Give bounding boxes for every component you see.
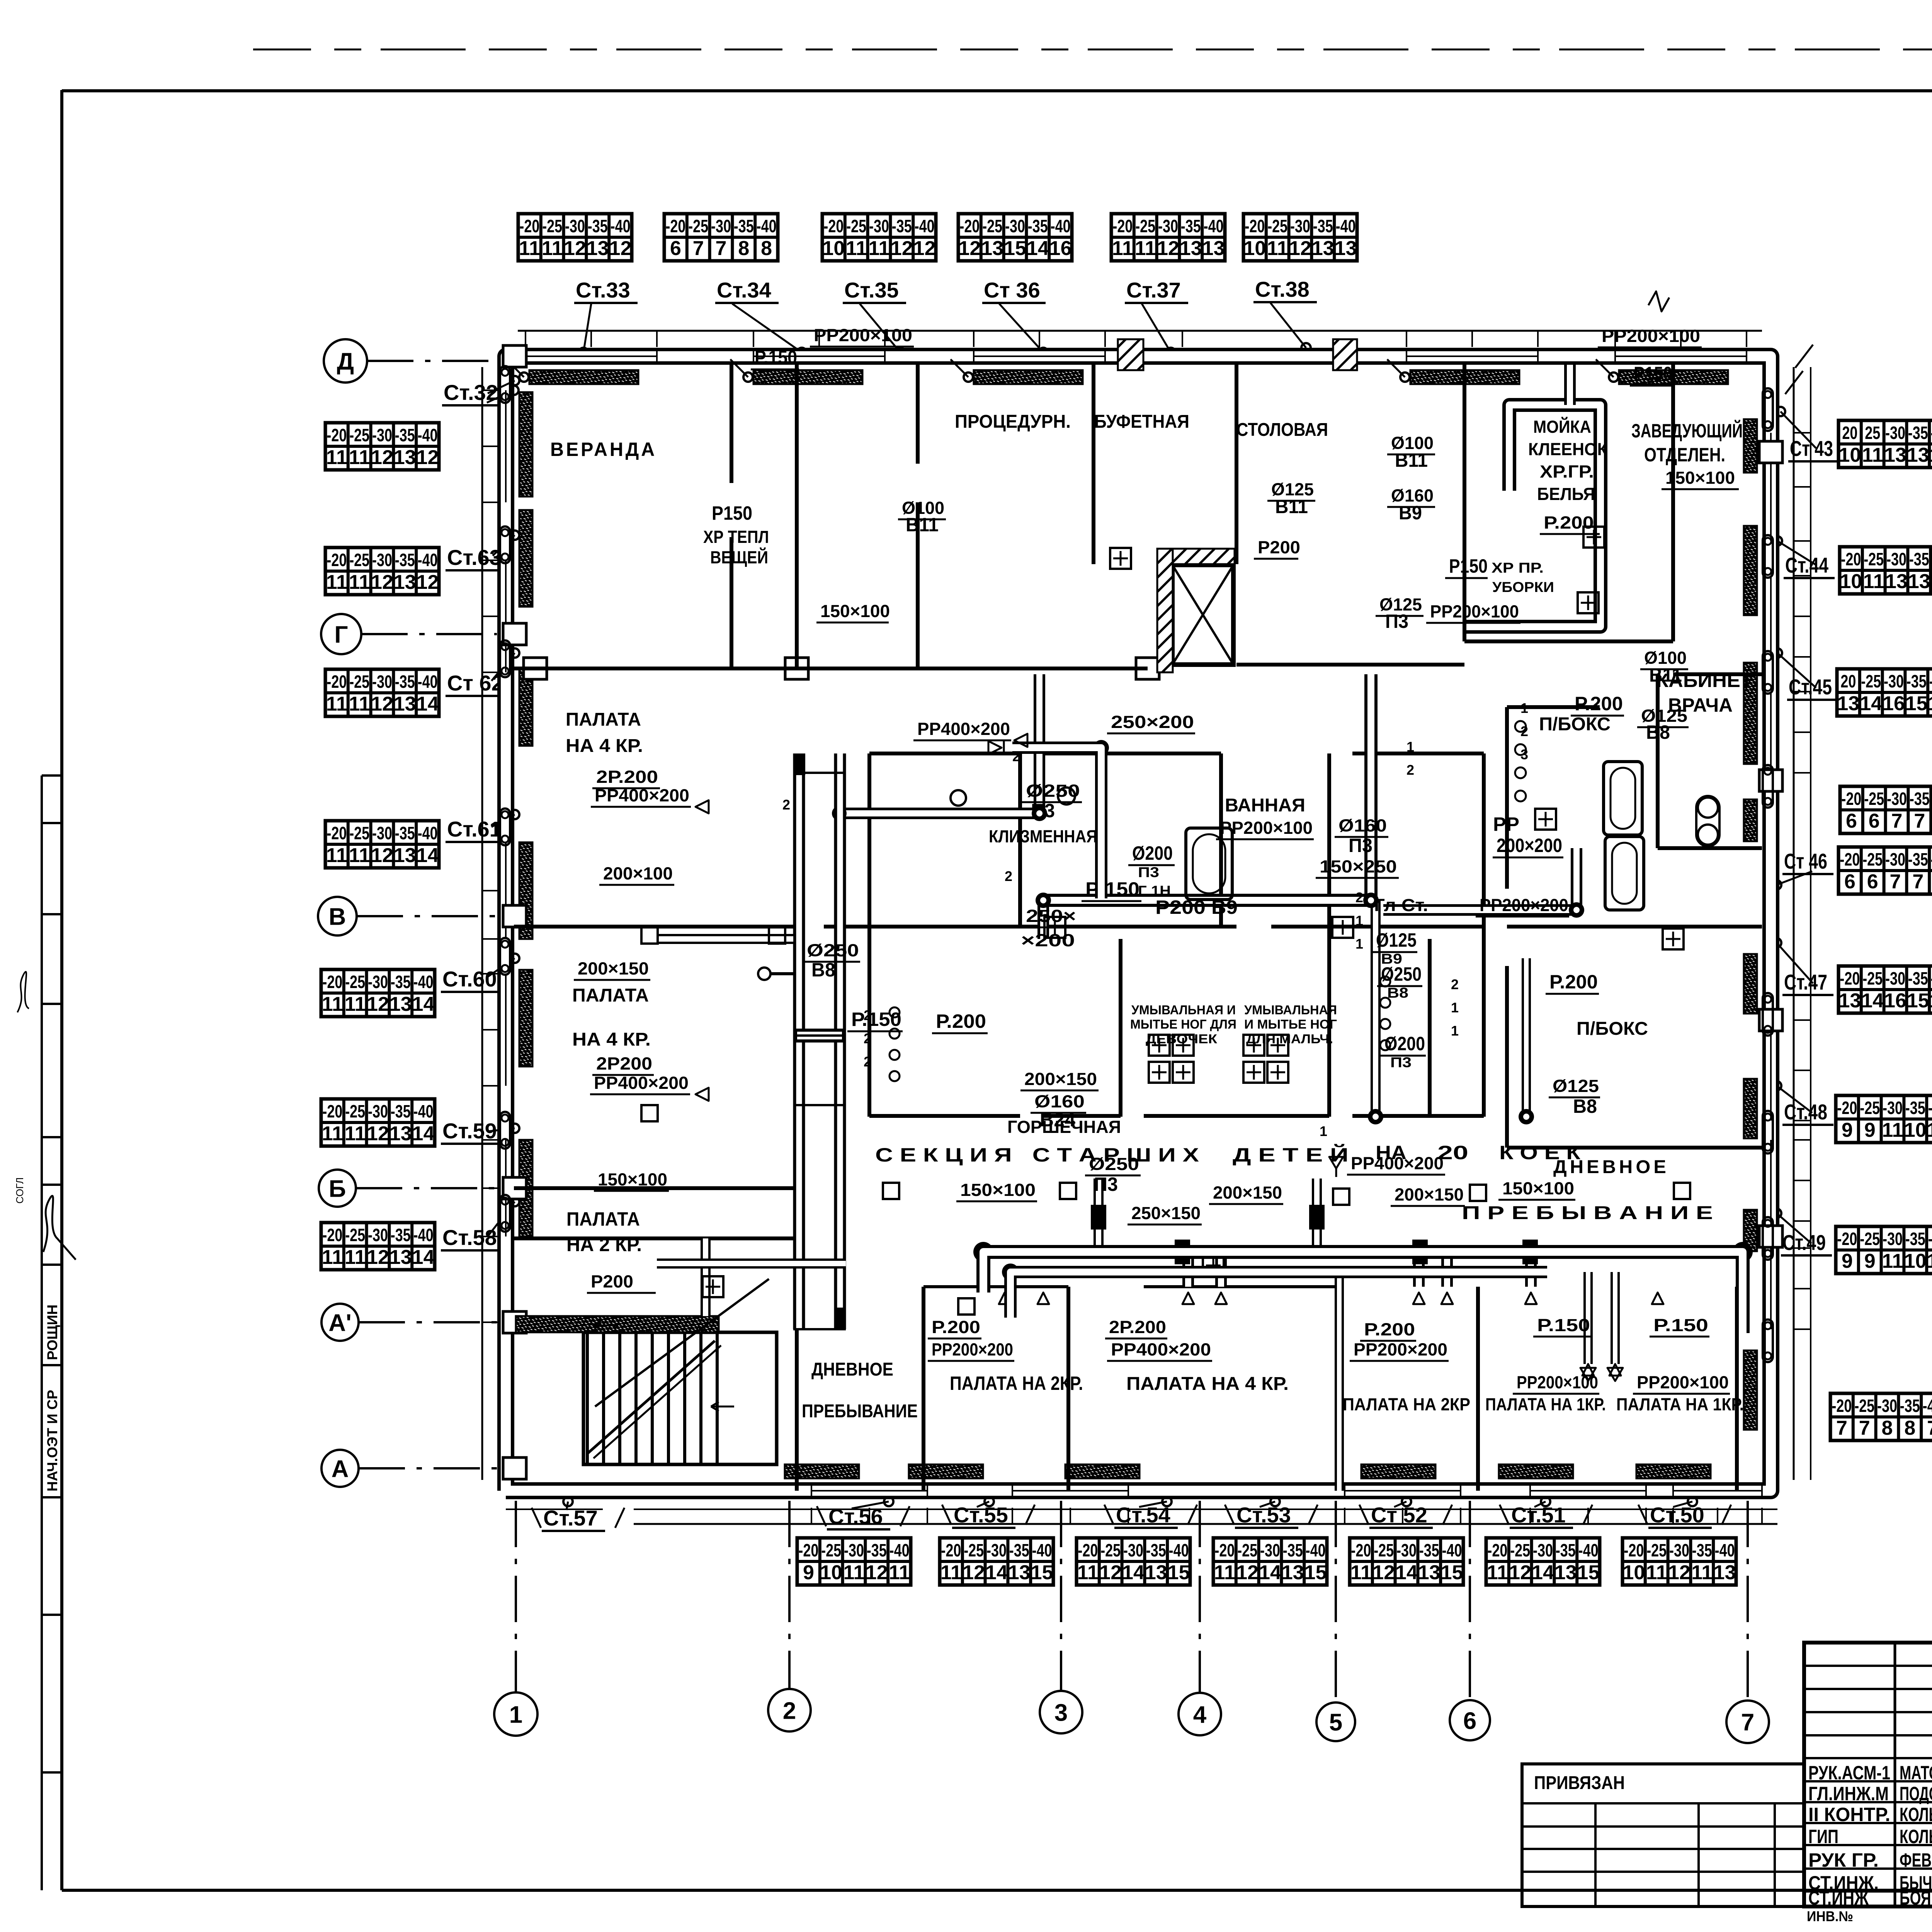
- svg-text:ПАЛАТА НА 4 КР.: ПАЛАТА НА 4 КР.: [1126, 1374, 1289, 1394]
- svg-text:7: 7: [1927, 1417, 1932, 1439]
- svg-text:-35: -35: [1692, 1540, 1712, 1560]
- svg-text:250×200: 250×200: [1111, 712, 1194, 732]
- svg-text:-25: -25: [1860, 1098, 1880, 1118]
- svg-text:Р150: Р150: [1634, 363, 1672, 384]
- svg-text:-40: -40: [1336, 216, 1356, 236]
- svg-text:-20: -20: [1837, 1229, 1857, 1249]
- svg-text:12: 12: [371, 693, 393, 715]
- svg-text:150×100: 150×100: [1502, 1179, 1574, 1198]
- svg-text:11: 11: [1267, 237, 1288, 260]
- svg-text:П/БОКС: П/БОКС: [1539, 714, 1611, 735]
- svg-text:13: 13: [1884, 444, 1906, 466]
- svg-text:-35: -35: [1009, 1540, 1029, 1560]
- svg-text:РР400×200: РР400×200: [1111, 1340, 1211, 1359]
- svg-text:-30: -30: [1396, 1540, 1417, 1560]
- svg-text:Р200: Р200: [1155, 896, 1206, 918]
- svg-text:-35: -35: [1906, 671, 1927, 691]
- svg-text:150×100: 150×100: [820, 601, 890, 621]
- svg-text:13: 13: [394, 844, 416, 867]
- svg-text:8: 8: [1882, 1417, 1893, 1439]
- svg-text:13: 13: [1202, 237, 1225, 260]
- svg-text:-30: -30: [1158, 216, 1178, 236]
- svg-text:-40: -40: [1931, 849, 1932, 869]
- svg-text:7: 7: [693, 237, 704, 260]
- svg-text:-30: -30: [1533, 1540, 1553, 1560]
- svg-text:10: 10: [1622, 1561, 1645, 1584]
- svg-text:РР400×200: РР400×200: [594, 1073, 689, 1093]
- svg-text:ОТДЕЛЕН.: ОТДЕЛЕН.: [1644, 444, 1725, 466]
- svg-text:14: 14: [417, 844, 439, 867]
- svg-text:РР200×100: РР200×100: [814, 325, 912, 345]
- svg-text:НА 4 КР.: НА 4 КР.: [566, 736, 643, 756]
- svg-text:12: 12: [1927, 1119, 1932, 1141]
- svg-text:-40: -40: [1032, 1540, 1052, 1560]
- svg-text:150×100: 150×100: [1665, 468, 1735, 488]
- svg-text:2Р.200: 2Р.200: [596, 767, 658, 787]
- svg-text:1: 1: [509, 1701, 522, 1728]
- svg-text:11: 11: [1691, 1561, 1713, 1584]
- svg-text:15: 15: [1905, 692, 1928, 715]
- svg-text:Ø250: Ø250: [1026, 781, 1080, 801]
- svg-text:-20: -20: [1245, 216, 1265, 236]
- svg-text:Ø200: Ø200: [1132, 842, 1173, 864]
- svg-text:-25: -25: [688, 216, 708, 236]
- svg-text:Р 150: Р 150: [1085, 878, 1139, 900]
- svg-text:Гл Ст.: Гл Ст.: [1374, 895, 1428, 915]
- svg-text:-40: -40: [418, 425, 438, 445]
- svg-text:-35: -35: [1905, 1098, 1925, 1118]
- svg-text:7: 7: [1891, 810, 1903, 832]
- svg-text:II КОНТР.: II КОНТР.: [1808, 1804, 1890, 1825]
- svg-text:13: 13: [1908, 570, 1930, 593]
- svg-text:11: 11: [322, 993, 343, 1015]
- svg-text:В8: В8: [1573, 1095, 1597, 1117]
- svg-text:-40: -40: [418, 550, 438, 570]
- svg-text:П3: П3: [1094, 1173, 1118, 1195]
- svg-text:-40: -40: [611, 216, 631, 236]
- svg-text:14: 14: [1027, 237, 1049, 260]
- svg-text:12: 12: [417, 446, 439, 469]
- svg-text:УМЫВАЛЬНАЯ И: УМЫВАЛЬНАЯ И: [1131, 1003, 1236, 1017]
- svg-text:Р150: Р150: [1449, 555, 1488, 577]
- svg-text:-25: -25: [1237, 1540, 1257, 1560]
- svg-text:РР400×200: РР400×200: [595, 786, 689, 805]
- svg-text:ПАЛАТА: ПАЛАТА: [566, 1208, 640, 1230]
- svg-text:11: 11: [1350, 1561, 1372, 1584]
- svg-text:БОЯРСКАЯ: БОЯРСКАЯ: [1900, 1887, 1932, 1909]
- svg-text:11: 11: [1487, 1561, 1508, 1584]
- svg-text:Р.200: Р.200: [1544, 513, 1594, 532]
- svg-text:17: 17: [1930, 990, 1932, 1012]
- svg-text:ПАЛАТА НА 2КР: ПАЛАТА НА 2КР: [1343, 1395, 1470, 1414]
- svg-text:Г 1Н: Г 1Н: [1138, 883, 1171, 899]
- svg-text:ХР.ГР.: ХР.ГР.: [1540, 462, 1594, 481]
- svg-text:Ст.60: Ст.60: [442, 967, 497, 991]
- svg-text:-35: -35: [1909, 549, 1929, 569]
- svg-text:-30: -30: [1123, 1540, 1143, 1560]
- svg-text:20: 20: [1842, 423, 1857, 443]
- svg-text:14: 14: [1259, 1561, 1281, 1584]
- svg-text:13: 13: [389, 993, 412, 1015]
- svg-text:13: 13: [1312, 237, 1334, 260]
- svg-text:15: 15: [1441, 1561, 1463, 1584]
- svg-text:12: 12: [371, 446, 393, 469]
- svg-text:8: 8: [761, 237, 772, 260]
- svg-text:-20: -20: [1351, 1540, 1371, 1560]
- svg-text:ГЛ.ИНЖ.М: ГЛ.ИНЖ.М: [1808, 1783, 1889, 1804]
- svg-text:11: 11: [345, 1246, 366, 1269]
- svg-text:3: 3: [1054, 1699, 1068, 1726]
- svg-text:9: 9: [1842, 1119, 1853, 1141]
- svg-text:11: 11: [1077, 1561, 1099, 1584]
- svg-text:В8: В8: [1387, 985, 1408, 1001]
- svg-text:200×150: 200×150: [1024, 1069, 1097, 1089]
- svg-text:-25: -25: [542, 216, 562, 236]
- svg-text:КОЛЬЦОВА: КОЛЬЦОВА: [1900, 1804, 1932, 1825]
- svg-text:Ст.58: Ст.58: [442, 1225, 497, 1250]
- svg-text:14: 14: [1395, 1561, 1418, 1584]
- svg-text:12: 12: [371, 571, 393, 594]
- svg-text:-25: -25: [1646, 1540, 1667, 1560]
- svg-text:12: 12: [866, 1561, 888, 1584]
- svg-text:-25: -25: [1374, 1540, 1394, 1560]
- svg-text:1: 1: [1355, 913, 1363, 929]
- svg-text:-25: -25: [1864, 549, 1884, 569]
- svg-text:-30: -30: [1290, 216, 1310, 236]
- svg-text:11: 11: [326, 571, 347, 594]
- svg-text:-20: -20: [519, 216, 539, 236]
- svg-text:-35: -35: [588, 216, 608, 236]
- svg-text:В11: В11: [906, 514, 939, 536]
- svg-text:Б: Б: [329, 1175, 346, 1202]
- svg-text:МАТОЯН: МАТОЯН: [1900, 1762, 1932, 1784]
- svg-text:-30: -30: [372, 550, 392, 570]
- svg-text:-40: -40: [889, 1540, 910, 1560]
- svg-text:200×100: 200×100: [603, 864, 673, 883]
- svg-text:В8: В8: [811, 959, 835, 981]
- svg-text:200×150: 200×150: [1395, 1185, 1464, 1204]
- svg-text:13: 13: [1335, 237, 1357, 260]
- svg-text:-25: -25: [1861, 671, 1881, 691]
- svg-text:МЫТЬЕ НОГ ДЛЯ: МЫТЬЕ НОГ ДЛЯ: [1130, 1017, 1236, 1031]
- svg-text:ПАЛАТА НА 1КР.: ПАЛАТА НА 1КР.: [1485, 1395, 1606, 1414]
- svg-text:-20: -20: [1112, 216, 1133, 236]
- svg-text:-35: -35: [1900, 1396, 1920, 1416]
- svg-text:11: 11: [542, 237, 563, 260]
- svg-text:-20: -20: [1078, 1540, 1098, 1560]
- svg-text:ДНЕВНОЕ: ДНЕВНОЕ: [1553, 1157, 1669, 1177]
- svg-text:-40: -40: [1306, 1540, 1326, 1560]
- svg-text:ИНВ.№: ИНВ.№: [1807, 1908, 1853, 1924]
- svg-text:-20: -20: [665, 216, 685, 236]
- svg-text:Р.150: Р.150: [851, 1009, 901, 1030]
- svg-text:7: 7: [1741, 1709, 1754, 1736]
- svg-text:11: 11: [326, 693, 347, 715]
- svg-text:-20: -20: [327, 425, 347, 445]
- svg-text:12: 12: [958, 237, 981, 260]
- svg-text:-35: -35: [395, 672, 415, 692]
- svg-text:ХР ПР.: ХР ПР.: [1492, 560, 1544, 576]
- svg-text:-25: -25: [349, 823, 369, 843]
- svg-text:-30: -30: [1885, 423, 1905, 443]
- svg-text:-40: -40: [413, 1225, 434, 1245]
- svg-text:Ст.35: Ст.35: [844, 278, 899, 302]
- svg-text:15: 15: [1004, 237, 1026, 260]
- svg-text:13: 13: [1885, 570, 1908, 593]
- svg-text:-30: -30: [1886, 549, 1906, 569]
- svg-text:-30: -30: [869, 216, 889, 236]
- svg-text:9: 9: [803, 1561, 814, 1584]
- svg-text:-30: -30: [711, 216, 731, 236]
- svg-text:В11: В11: [1275, 496, 1308, 517]
- svg-text:-20: -20: [1487, 1540, 1507, 1560]
- svg-text:6: 6: [1463, 1708, 1476, 1734]
- svg-text:-25: -25: [982, 216, 1002, 236]
- svg-text:25: 25: [1865, 423, 1880, 443]
- svg-text:14: 14: [1860, 692, 1882, 715]
- svg-text:13: 13: [389, 1122, 412, 1145]
- svg-text:11: 11: [1646, 1561, 1667, 1584]
- svg-text:150×100: 150×100: [598, 1170, 667, 1189]
- svg-text:-20: -20: [322, 1225, 342, 1245]
- svg-text:13: 13: [394, 693, 416, 715]
- svg-text:УМЫВАЛЬНАЯ: УМЫВАЛЬНАЯ: [1244, 1003, 1337, 1017]
- svg-text:-20: -20: [1837, 1098, 1857, 1118]
- svg-text:СОГЛ: СОГЛ: [14, 1177, 26, 1204]
- svg-text:12: 12: [564, 237, 586, 260]
- svg-text:БУФЕТНАЯ: БУФЕТНАЯ: [1094, 412, 1189, 432]
- svg-text:В: В: [329, 903, 346, 930]
- svg-text:11: 11: [322, 1246, 343, 1269]
- svg-text:-30: -30: [1005, 216, 1025, 236]
- svg-text:-30: -30: [372, 425, 392, 445]
- svg-text:РР200×200: РР200×200: [932, 1340, 1013, 1359]
- svg-text:2: 2: [864, 1054, 871, 1070]
- svg-text:16: 16: [1884, 990, 1906, 1012]
- svg-text:-35: -35: [391, 972, 411, 992]
- svg-text:П3: П3: [1385, 611, 1408, 632]
- svg-text:14: 14: [412, 1246, 435, 1269]
- svg-text:-20: -20: [322, 972, 342, 992]
- svg-text:-30: -30: [368, 1225, 388, 1245]
- svg-text:-40: -40: [757, 216, 777, 236]
- svg-text:-30: -30: [1885, 968, 1905, 988]
- svg-text:РОЩИН: РОЩИН: [44, 1304, 60, 1360]
- svg-text:Ст.44: Ст.44: [1785, 553, 1828, 577]
- svg-text:СТОЛОВАЯ: СТОЛОВАЯ: [1236, 420, 1328, 440]
- svg-text:5: 5: [1329, 1709, 1342, 1736]
- svg-text:СТ.ИНЖ: СТ.ИНЖ: [1808, 1887, 1869, 1909]
- svg-text:8: 8: [738, 237, 749, 260]
- svg-text:13: 13: [1145, 1561, 1167, 1584]
- svg-text:-25: -25: [1510, 1540, 1530, 1560]
- svg-text:11: 11: [349, 844, 370, 867]
- svg-text:15: 15: [1031, 1561, 1053, 1584]
- svg-text:7: 7: [1859, 1417, 1870, 1439]
- svg-text:12: 12: [1927, 1250, 1932, 1272]
- svg-text:16: 16: [1049, 237, 1072, 260]
- svg-text:12: 12: [1372, 1561, 1395, 1584]
- svg-text:-35: -35: [395, 425, 415, 445]
- svg-text:7: 7: [1914, 810, 1925, 832]
- svg-text:14: 14: [985, 1561, 1008, 1584]
- svg-text:Р200: Р200: [1258, 537, 1300, 557]
- svg-text:Ст 62: Ст 62: [447, 671, 503, 695]
- svg-text:Р.150: Р.150: [755, 347, 797, 368]
- svg-text:Ст.61: Ст.61: [447, 817, 502, 841]
- svg-text:-40: -40: [915, 216, 935, 236]
- svg-text:15: 15: [1304, 1561, 1327, 1584]
- svg-text:12: 12: [963, 1561, 985, 1584]
- svg-text:-35: -35: [1556, 1540, 1576, 1560]
- svg-text:ВЕРАНДА: ВЕРАНДА: [550, 439, 657, 460]
- svg-text:-25: -25: [345, 1101, 365, 1121]
- svg-text:-40: -40: [1051, 216, 1071, 236]
- svg-text:ПАЛАТА: ПАЛАТА: [566, 709, 641, 730]
- svg-text:-35: -35: [1181, 216, 1201, 236]
- svg-text:13: 13: [1838, 990, 1861, 1012]
- svg-text:10: 10: [1904, 1250, 1927, 1272]
- svg-text:12: 12: [417, 571, 439, 594]
- svg-text:11: 11: [345, 993, 366, 1015]
- svg-text:ДЛЯ МАЛЬЧ.: ДЛЯ МАЛЬЧ.: [1246, 1032, 1333, 1046]
- svg-text:6: 6: [1846, 810, 1857, 832]
- svg-text:200×200: 200×200: [1497, 835, 1562, 856]
- svg-text:-20: -20: [823, 216, 844, 236]
- svg-text:-25: -25: [1854, 1396, 1874, 1416]
- svg-text:Р150: Р150: [712, 502, 752, 524]
- svg-text:РР: РР: [1493, 813, 1519, 835]
- svg-text:-40: -40: [1169, 1540, 1189, 1560]
- svg-text:-35: -35: [1283, 1540, 1303, 1560]
- svg-text:12: 12: [371, 844, 393, 867]
- svg-text:10: 10: [822, 237, 845, 260]
- svg-text:ПАЛАТА: ПАЛАТА: [572, 985, 649, 1006]
- svg-text:Ø250: Ø250: [807, 940, 859, 960]
- svg-text:11: 11: [844, 1561, 865, 1584]
- svg-text:3: 3: [1520, 747, 1528, 762]
- svg-text:4: 4: [1193, 1701, 1207, 1728]
- svg-text:12: 12: [891, 237, 913, 260]
- svg-text:2: 2: [864, 1007, 871, 1023]
- svg-text:13: 13: [389, 1246, 412, 1269]
- svg-text:10: 10: [1243, 237, 1266, 260]
- svg-text:Ст 46: Ст 46: [1784, 849, 1827, 873]
- svg-text:13: 13: [1907, 444, 1929, 466]
- svg-text:14: 14: [1861, 990, 1884, 1012]
- svg-text:Ø125: Ø125: [1553, 1076, 1599, 1096]
- svg-text:-25: -25: [846, 216, 866, 236]
- svg-text:Ст 36: Ст 36: [984, 278, 1040, 302]
- svg-text:11: 11: [349, 446, 370, 469]
- svg-text:А: А: [332, 1456, 349, 1482]
- svg-text:В11: В11: [1649, 664, 1682, 686]
- svg-text:П/БОКС: П/БОКС: [1577, 1019, 1648, 1039]
- svg-text:9: 9: [1864, 1119, 1876, 1141]
- svg-text:-30: -30: [1877, 1396, 1897, 1416]
- svg-text:13: 13: [1282, 1561, 1304, 1584]
- svg-text:РУК ГР.: РУК ГР.: [1808, 1849, 1879, 1871]
- svg-text:УБОРКИ: УБОРКИ: [1492, 579, 1554, 595]
- svg-text:-35: -35: [1146, 1540, 1166, 1560]
- svg-text:13: 13: [1008, 1561, 1031, 1584]
- svg-text:2: 2: [782, 797, 790, 813]
- svg-text:-40: -40: [1931, 423, 1932, 443]
- svg-text:-30: -30: [1883, 1098, 1903, 1118]
- svg-text:12: 12: [367, 1122, 389, 1145]
- svg-text:1: 1: [1355, 936, 1363, 952]
- svg-text:10: 10: [1838, 444, 1861, 466]
- svg-text:2Р200: 2Р200: [596, 1054, 652, 1073]
- svg-text:П3: П3: [1349, 835, 1372, 856]
- svg-text:-35: -35: [391, 1101, 411, 1121]
- svg-text:РР200×100: РР200×100: [1602, 326, 1700, 346]
- svg-text:-25: -25: [1135, 216, 1155, 236]
- svg-text:1: 1: [1406, 739, 1414, 755]
- svg-text:6: 6: [670, 237, 681, 260]
- svg-text:15: 15: [1907, 990, 1929, 1012]
- svg-text:-25: -25: [349, 672, 369, 692]
- svg-text:-35: -35: [734, 216, 754, 236]
- svg-text:-25: -25: [1860, 1229, 1880, 1249]
- svg-text:12: 12: [367, 993, 389, 1015]
- svg-text:2: 2: [1005, 868, 1012, 884]
- svg-text:1: 1: [1451, 1000, 1459, 1015]
- svg-text:14: 14: [412, 993, 435, 1015]
- svg-text:РР400×200: РР400×200: [917, 719, 1010, 739]
- svg-text:ВАННАЯ: ВАННАЯ: [1225, 795, 1305, 816]
- svg-text:-25: -25: [1862, 968, 1883, 988]
- svg-text:200×150: 200×150: [1213, 1183, 1282, 1202]
- svg-text:-25: -25: [345, 1225, 365, 1245]
- svg-text:РР200×200: РР200×200: [1480, 895, 1568, 915]
- svg-text:15: 15: [1577, 1561, 1600, 1584]
- svg-text:Д: Д: [337, 348, 354, 375]
- svg-text:13: 13: [1837, 692, 1859, 715]
- svg-text:150×100: 150×100: [960, 1180, 1036, 1200]
- svg-text:6: 6: [1867, 871, 1878, 893]
- svg-text:7: 7: [1890, 871, 1901, 893]
- svg-text:-35: -35: [391, 1225, 411, 1245]
- svg-text:-30: -30: [372, 823, 392, 843]
- svg-text:-30: -30: [986, 1540, 1007, 1560]
- svg-text:11: 11: [869, 237, 890, 260]
- svg-text:ПРИВЯЗАН: ПРИВЯЗАН: [1534, 1773, 1625, 1793]
- svg-text:-40: -40: [1923, 1396, 1932, 1416]
- svg-text:2: 2: [1451, 976, 1459, 992]
- svg-text:ЗАВЕДУЮЩИЙ: ЗАВЕДУЮЩИЙ: [1631, 420, 1743, 442]
- svg-text:Ø250: Ø250: [1381, 963, 1422, 985]
- svg-text:11: 11: [940, 1561, 962, 1584]
- svg-text:20: 20: [1840, 671, 1856, 691]
- svg-text:11: 11: [1135, 237, 1156, 260]
- svg-text:-20: -20: [327, 823, 347, 843]
- svg-text:11: 11: [1112, 237, 1133, 260]
- svg-text:9: 9: [1842, 1250, 1853, 1272]
- svg-text:-40: -40: [1931, 968, 1932, 988]
- svg-text:-20: -20: [1840, 968, 1860, 988]
- svg-text:9: 9: [1864, 1250, 1876, 1272]
- svg-text:-40: -40: [1929, 671, 1932, 691]
- svg-text:1: 1: [1451, 1023, 1459, 1039]
- svg-text:11: 11: [1882, 1250, 1903, 1272]
- svg-text:11: 11: [326, 844, 347, 867]
- svg-text:ГИП: ГИП: [1808, 1826, 1838, 1847]
- svg-text:-40: -40: [1578, 1540, 1599, 1560]
- svg-text:РР200×100: РР200×100: [1637, 1372, 1729, 1392]
- svg-text:В9: В9: [1211, 896, 1238, 918]
- svg-text:П Р Е Б Ы В А Н И Е: П Р Е Б Ы В А Н И Е: [1462, 1203, 1713, 1223]
